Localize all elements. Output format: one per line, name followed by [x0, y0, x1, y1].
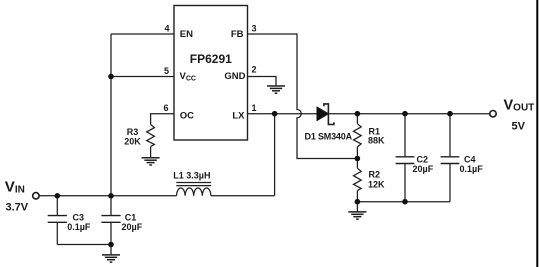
diode D1 schottky cathode bar [324, 104, 334, 125]
svg-text:D1 SM340A: D1 SM340A [305, 132, 353, 142]
resistor R1 leads [356, 114, 358, 124]
inductor L1 core bars [176, 182, 211, 184]
resistor R2 body [354, 168, 362, 190]
capacitor C3 plates [48, 215, 67, 217]
terminal VIN circle [33, 193, 39, 199]
svg-text:FB: FB [231, 29, 244, 40]
ground (GND pin2) [267, 86, 285, 93]
svg-text:L1 3.3µH: L1 3.3µH [173, 170, 210, 180]
node C2 bottom [402, 199, 408, 205]
svg-text:3: 3 [252, 24, 257, 34]
node FB divider [355, 156, 361, 162]
op-amp U1 FP6291 box [174, 6, 248, 141]
wire R3 to ground [150, 147, 152, 158]
wire VIN rail [39, 195, 176, 197]
svg-text:12K: 12K [368, 180, 385, 190]
capacitor C2 plates [396, 156, 415, 158]
node LX / L1 [272, 111, 278, 117]
capacitor C4 bottom lead [449, 164, 451, 202]
svg-text:5: 5 [164, 66, 169, 76]
svg-text:20µF: 20µF [122, 222, 143, 232]
svg-text:LX: LX [232, 110, 245, 121]
svg-text:C2: C2 [417, 154, 429, 164]
capacitor C1 plates [101, 215, 120, 217]
svg-text:C4: C4 [464, 154, 476, 164]
svg-text:R2: R2 [369, 169, 381, 179]
svg-text:0.1µF: 0.1µF [460, 164, 484, 174]
capacitor C4 plates [441, 156, 460, 158]
node C3 top [55, 193, 61, 199]
inductor L1 coil [177, 188, 211, 196]
capacitor C1 bottom lead [110, 222, 112, 244]
wire C1 node to ground [110, 245, 112, 255]
border right edge [536, 0, 538, 267]
ground (R3) [142, 158, 160, 165]
node R2 bottom [355, 199, 361, 205]
svg-text:20µF: 20µF [413, 164, 434, 174]
wire OC pin6 to R3 [151, 114, 174, 125]
svg-text:OC: OC [180, 110, 194, 121]
capacitor C2 bottom lead [404, 164, 406, 202]
wire R1 to R2 node [356, 147, 358, 168]
svg-text:EN: EN [180, 29, 193, 40]
wire R2 to ground node [356, 191, 358, 202]
svg-text:GND: GND [224, 71, 245, 82]
node VIN rail / C1 top [108, 193, 114, 199]
node C1 bottom ground [108, 242, 114, 248]
svg-text:5V: 5V [512, 121, 526, 133]
ground (C1 input) [102, 255, 120, 262]
wire R2 ground stub [356, 202, 358, 212]
svg-text:4: 4 [164, 24, 169, 34]
svg-text:88K: 88K [368, 136, 385, 146]
wire EN pin4 to left rail [111, 33, 174, 35]
wire C3 to C1 bottom [57, 244, 111, 246]
node C2 top [402, 111, 408, 117]
resistor R1 body [354, 124, 362, 147]
wire GND pin2 [248, 77, 277, 86]
node junction dots [55, 74, 453, 248]
svg-text:0.1µF: 0.1µF [67, 222, 91, 232]
wire L1 to LX riser [211, 195, 275, 197]
svg-text:6: 6 [163, 103, 168, 113]
svg-text:3.7V: 3.7V [6, 202, 29, 214]
wire VCC pin5 [111, 76, 174, 78]
svg-text:1: 1 [252, 103, 257, 113]
wire FB pin3 down with hop over LX wire [248, 34, 358, 159]
node C4 top [447, 111, 453, 117]
resistor R3 body [147, 124, 155, 146]
terminal VOUT circle [490, 111, 496, 117]
capacitor C3 top lead [56, 196, 58, 216]
wire left rail vertical [110, 34, 112, 216]
wire bottom rail R2 to C4 [357, 201, 450, 203]
ground (R2) [348, 212, 366, 219]
node R1 top [355, 111, 361, 117]
diode D1 SM340A triangle [317, 107, 328, 120]
wire LX pin1 to diode [248, 113, 317, 115]
capacitor C4 top lead [449, 114, 451, 157]
wire diode cathode to VOUT [328, 113, 489, 115]
svg-text:2: 2 [252, 65, 257, 75]
capacitor C2 top lead [404, 114, 406, 157]
capacitor C3 bottom lead [56, 222, 58, 244]
node VCC rail junction [108, 74, 114, 80]
svg-text:FP6291: FP6291 [190, 52, 232, 66]
wire LX node down to inductor [274, 114, 276, 196]
svg-text:20K: 20K [124, 136, 141, 146]
